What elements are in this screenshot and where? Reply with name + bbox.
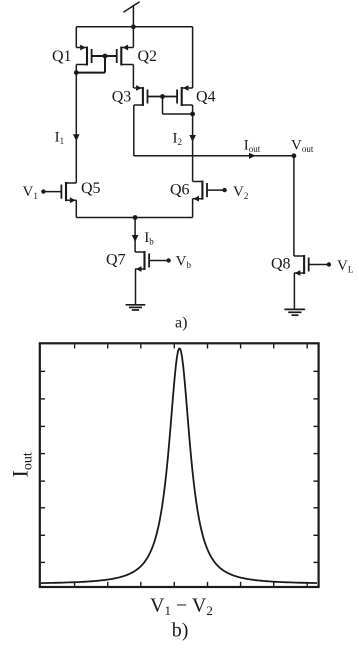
junction Q3/Q4 gate node [160, 94, 165, 99]
svg-text:V1 − V2: V1 − V2 [150, 595, 213, 619]
wire Q8 source to ground [293, 273, 295, 309]
transistor Q1 [76, 45, 117, 66]
wire Q4 source from rail [192, 27, 194, 88]
junction Q4 drain node [190, 112, 195, 117]
wire Q6 source to tail rail [192, 199, 194, 218]
svg-text:Q4: Q4 [196, 88, 216, 105]
wire Q1 drain [75, 65, 77, 73]
svg-text:Q3: Q3 [112, 88, 132, 105]
wire Q1 diode tie horizontal [76, 72, 105, 74]
wire Q1-Q2 gate chain [92, 55, 117, 57]
arrow I2 current [189, 135, 196, 142]
junction tail node [133, 215, 138, 220]
junction Vout node [292, 153, 297, 158]
svg-text:b): b) [172, 620, 189, 642]
svg-text:Iout: Iout [244, 138, 261, 155]
wire I2 column Q4 drain to Q6 drain [192, 114, 194, 182]
svg-text:Q2: Q2 [138, 48, 158, 65]
junction supply/rail [131, 24, 136, 29]
svg-text:I2: I2 [173, 130, 183, 147]
curve Iout vs V1-V2 bump response [41, 349, 317, 583]
junction Q1/Q2 gate node [103, 54, 108, 59]
wire Q1 source from rail [75, 27, 77, 48]
svg-text:Q8: Q8 [271, 256, 291, 273]
wire Ib column to Q7 drain [134, 218, 136, 253]
transistor Q5 [43, 182, 76, 203]
wire Q2 source from rail [132, 27, 134, 48]
svg-text:I1: I1 [55, 129, 65, 146]
wire Q3 drain to Iout line [133, 105, 135, 156]
terminal V1 [41, 189, 45, 193]
wire top VDD rail [76, 26, 192, 28]
svg-text:Q7: Q7 [106, 252, 126, 269]
svg-text:VL: VL [337, 258, 353, 275]
power supply symbol [123, 2, 139, 27]
wire Q2 drain to Q3 source [132, 65, 134, 89]
graph tick marks [41, 344, 318, 586]
svg-text:Q1: Q1 [52, 48, 72, 65]
arrow Ib current [132, 235, 139, 242]
transistor Q2 [92, 45, 134, 66]
svg-text:a): a) [175, 315, 187, 332]
terminal VL [327, 262, 331, 266]
wire Q7 source to ground [135, 269, 137, 304]
ground Q8 [284, 309, 305, 315]
terminal Vb [166, 258, 170, 262]
arrow Iout current [249, 153, 256, 159]
wire Q4 drain [192, 105, 194, 114]
svg-text:Iout: Iout [7, 452, 35, 477]
wire Iout output line [134, 155, 294, 157]
svg-text:V2: V2 [233, 184, 248, 201]
svg-text:Ib: Ib [144, 230, 154, 247]
wire Vout column to Q8 drain [293, 156, 295, 256]
svg-text:V1: V1 [23, 184, 38, 201]
svg-text:Q6: Q6 [170, 182, 190, 199]
junction Q1 drain node [74, 70, 79, 75]
svg-text:Vout: Vout [291, 138, 314, 155]
wire Q4 diode tie vertical [162, 97, 164, 115]
arrow I1 current [73, 134, 80, 141]
graph axes box [40, 343, 319, 587]
transistor Q3 [134, 85, 177, 106]
transistor Q8 [294, 255, 329, 276]
wire Q1 diode tie vertical [104, 56, 106, 73]
terminal V2 [222, 188, 226, 192]
wire I1 column Q1 drain to Q5 drain [75, 73, 77, 183]
transistor Q7 [135, 251, 169, 272]
transistor Q6 [193, 181, 225, 202]
wire Q5 source to tail rail [75, 200, 77, 217]
wire Q4 diode tie horizontal [163, 113, 193, 115]
svg-text:Q5: Q5 [81, 180, 101, 197]
wire tail rail [76, 217, 192, 219]
svg-text:Vb: Vb [176, 254, 192, 271]
transistor Q4 [148, 85, 193, 106]
ground Q7 [126, 305, 146, 310]
